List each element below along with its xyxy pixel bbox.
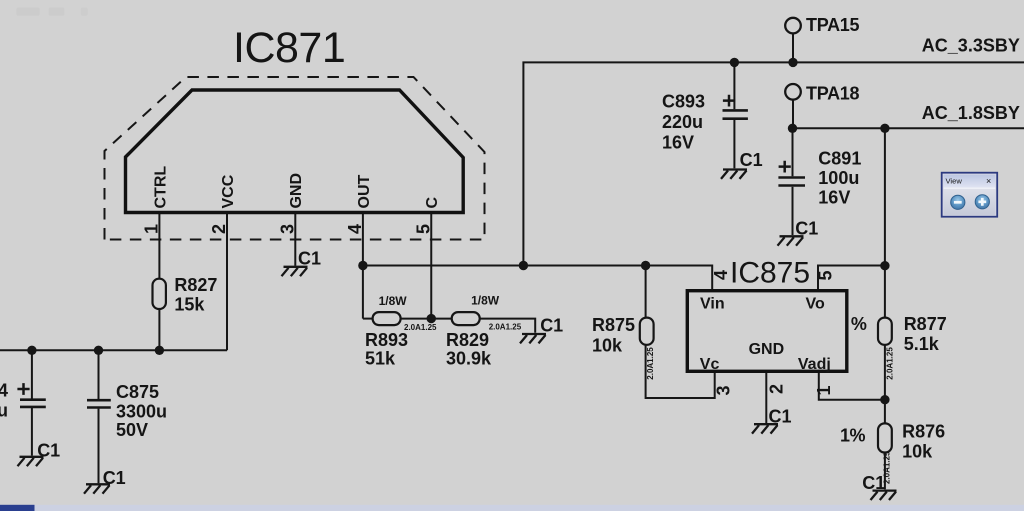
svg-text:4: 4 xyxy=(0,381,8,401)
svg-text:×: × xyxy=(986,176,991,186)
svg-text:50V: 50V xyxy=(116,420,148,440)
svg-text:AC_1.8SBY: AC_1.8SBY xyxy=(922,103,1020,123)
svg-text:R876: R876 xyxy=(902,422,945,442)
svg-text:C1: C1 xyxy=(795,219,818,239)
svg-text:GND: GND xyxy=(288,173,305,209)
svg-text:10k: 10k xyxy=(592,335,623,355)
svg-text:2.0A1.25: 2.0A1.25 xyxy=(886,347,895,380)
svg-text:220u: 220u xyxy=(662,112,703,132)
svg-text:GND: GND xyxy=(749,341,785,358)
svg-text:C1: C1 xyxy=(37,441,60,461)
svg-text:u: u xyxy=(0,401,8,421)
svg-text:16V: 16V xyxy=(818,188,850,208)
svg-text:30.9k: 30.9k xyxy=(446,349,492,369)
svg-text:VCC: VCC xyxy=(220,174,237,208)
svg-text:3: 3 xyxy=(714,385,734,395)
svg-text:2.0A1.25: 2.0A1.25 xyxy=(883,451,892,484)
svg-text:CTRL: CTRL xyxy=(152,166,169,209)
svg-text:C1: C1 xyxy=(298,249,321,269)
svg-text:15k: 15k xyxy=(174,295,205,315)
svg-text:AC_3.3SBY: AC_3.3SBY xyxy=(922,36,1020,56)
svg-text:C1: C1 xyxy=(769,407,792,427)
svg-text:5: 5 xyxy=(816,270,836,280)
svg-text:5: 5 xyxy=(413,224,433,234)
svg-text:C1: C1 xyxy=(740,150,763,170)
svg-text:4: 4 xyxy=(711,270,731,280)
svg-text:R893: R893 xyxy=(365,330,408,350)
svg-text:R829: R829 xyxy=(446,330,489,350)
svg-text:1: 1 xyxy=(814,385,834,395)
svg-text:1%: 1% xyxy=(840,426,866,446)
svg-text:3: 3 xyxy=(278,224,298,234)
svg-text:C893: C893 xyxy=(662,92,705,112)
svg-text:TPA15: TPA15 xyxy=(806,15,859,35)
svg-text:R827: R827 xyxy=(174,275,217,295)
svg-text:3300u: 3300u xyxy=(116,402,167,422)
svg-text:IC871: IC871 xyxy=(233,24,345,72)
svg-text:1/8W: 1/8W xyxy=(471,294,500,308)
svg-text:10k: 10k xyxy=(902,442,933,462)
svg-text:51k: 51k xyxy=(365,349,396,369)
svg-text:2: 2 xyxy=(767,384,787,394)
svg-text:4: 4 xyxy=(345,224,365,234)
svg-text:R875: R875 xyxy=(592,315,635,335)
svg-text:View: View xyxy=(946,177,963,186)
svg-text:2.0A1.25: 2.0A1.25 xyxy=(646,347,655,380)
svg-text:2: 2 xyxy=(209,224,229,234)
svg-text:Vo: Vo xyxy=(806,296,825,313)
svg-text:1/8W: 1/8W xyxy=(379,294,408,308)
svg-text:OUT: OUT xyxy=(356,175,373,209)
svg-text:Vc: Vc xyxy=(700,356,720,373)
svg-text:16V: 16V xyxy=(662,133,694,153)
svg-text:C891: C891 xyxy=(818,149,861,169)
svg-text:C1: C1 xyxy=(103,468,126,488)
svg-text:1: 1 xyxy=(142,224,162,234)
svg-text:2.0A1.25: 2.0A1.25 xyxy=(489,323,522,332)
svg-text:TPA18: TPA18 xyxy=(806,84,859,104)
svg-text:IC875: IC875 xyxy=(730,257,810,290)
svg-text:C1: C1 xyxy=(540,316,563,336)
svg-text:C: C xyxy=(424,197,441,209)
svg-text:R877: R877 xyxy=(904,314,947,334)
svg-text:Vadj: Vadj xyxy=(798,356,831,373)
svg-text:2.0A1.25: 2.0A1.25 xyxy=(404,323,437,332)
svg-text:C875: C875 xyxy=(116,382,159,402)
svg-text:Vin: Vin xyxy=(700,296,725,313)
svg-text:%: % xyxy=(851,314,867,334)
svg-text:5.1k: 5.1k xyxy=(904,334,940,354)
svg-text:100u: 100u xyxy=(818,168,859,188)
